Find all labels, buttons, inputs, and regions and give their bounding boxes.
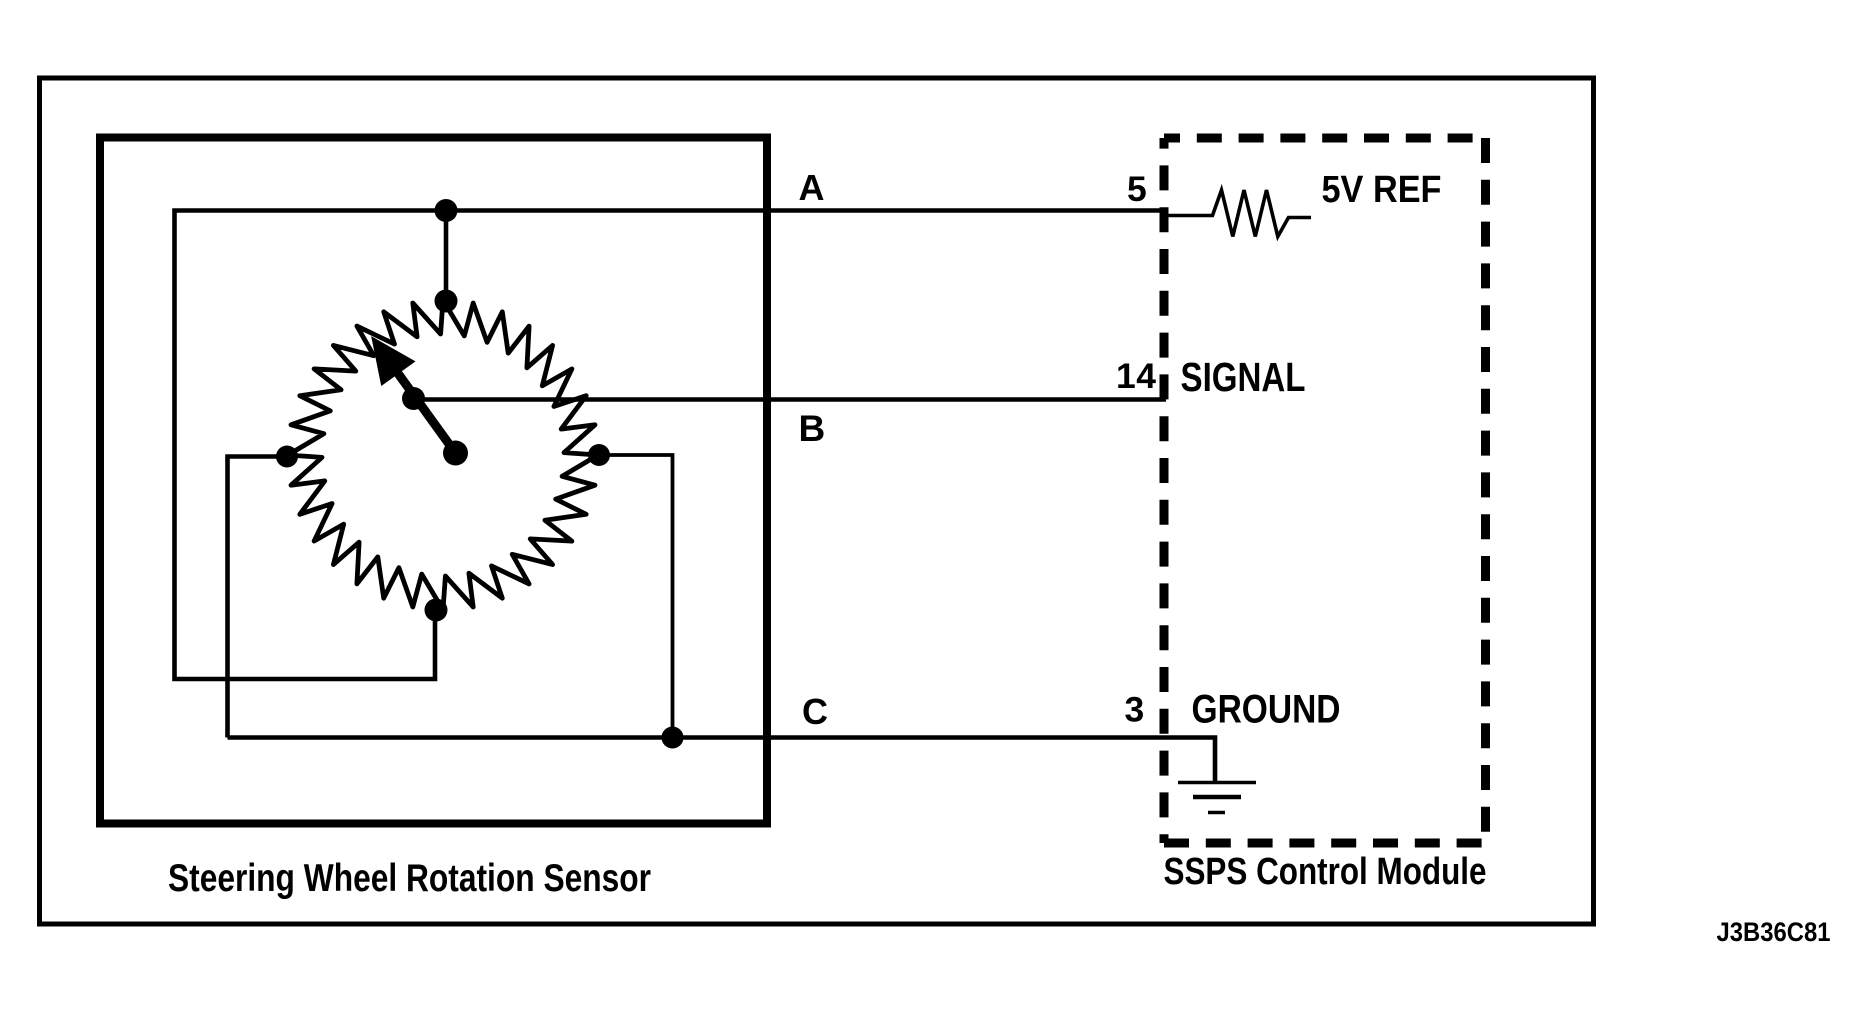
svg-text:J3B36C81: J3B36C81 [1717,917,1831,947]
junction dot: wiper pivot [443,441,468,466]
junction dot: left terminal [276,446,298,468]
junction dot: top terminal [435,290,458,313]
svg-text:SSPS Control Module: SSPS Control Module [1164,851,1487,893]
svg-text:B: B [799,408,826,449]
potentiometer R1: circular resistive track (zigzag ring) [288,300,598,610]
junction dot: bottom terminal [425,599,448,622]
outer enclosure frame of schematic [40,78,1594,924]
wire C: ground wire to module pin 3 [228,738,1216,782]
svg-text:3: 3 [1125,690,1145,730]
SSPS control module box (dashed) [1164,138,1486,843]
junction dot: node C [662,727,684,749]
wire: left terminal branch down to wire C [228,457,288,738]
svg-text:5: 5 [1127,169,1147,209]
ground symbol [1178,783,1256,813]
svg-text:SIGNAL: SIGNAL [1181,354,1306,400]
svg-text:Steering Wheel Rotation Sensor: Steering Wheel Rotation Sensor [168,857,651,900]
wire: right terminal branch down to C junction [599,455,673,738]
wiper arm shaft [397,372,456,453]
junction dot: wiper tap (node B) [402,387,425,410]
wiper arrowhead [374,340,412,383]
wire: A-junction loop to bottom terminal [175,211,447,680]
junction dot: node A [435,199,458,222]
junction dot: right terminal [588,444,610,466]
svg-text:GROUND: GROUND [1192,688,1341,732]
wire A: sensor top terminal to module pin 5 [446,208,1165,213]
svg-text:A: A [799,167,825,208]
wire: stub from A junction to top terminal [444,211,449,302]
wire B: wiper tap to module pin 14 [414,397,1167,402]
svg-text:C: C [802,691,828,732]
sensor box: Steering Wheel Rotation Sensor enclosure [100,138,767,824]
svg-text:14: 14 [1116,356,1156,396]
svg-text:5V REF: 5V REF [1322,169,1442,211]
resistor: 5V REF pull-up inside module [1164,190,1311,237]
